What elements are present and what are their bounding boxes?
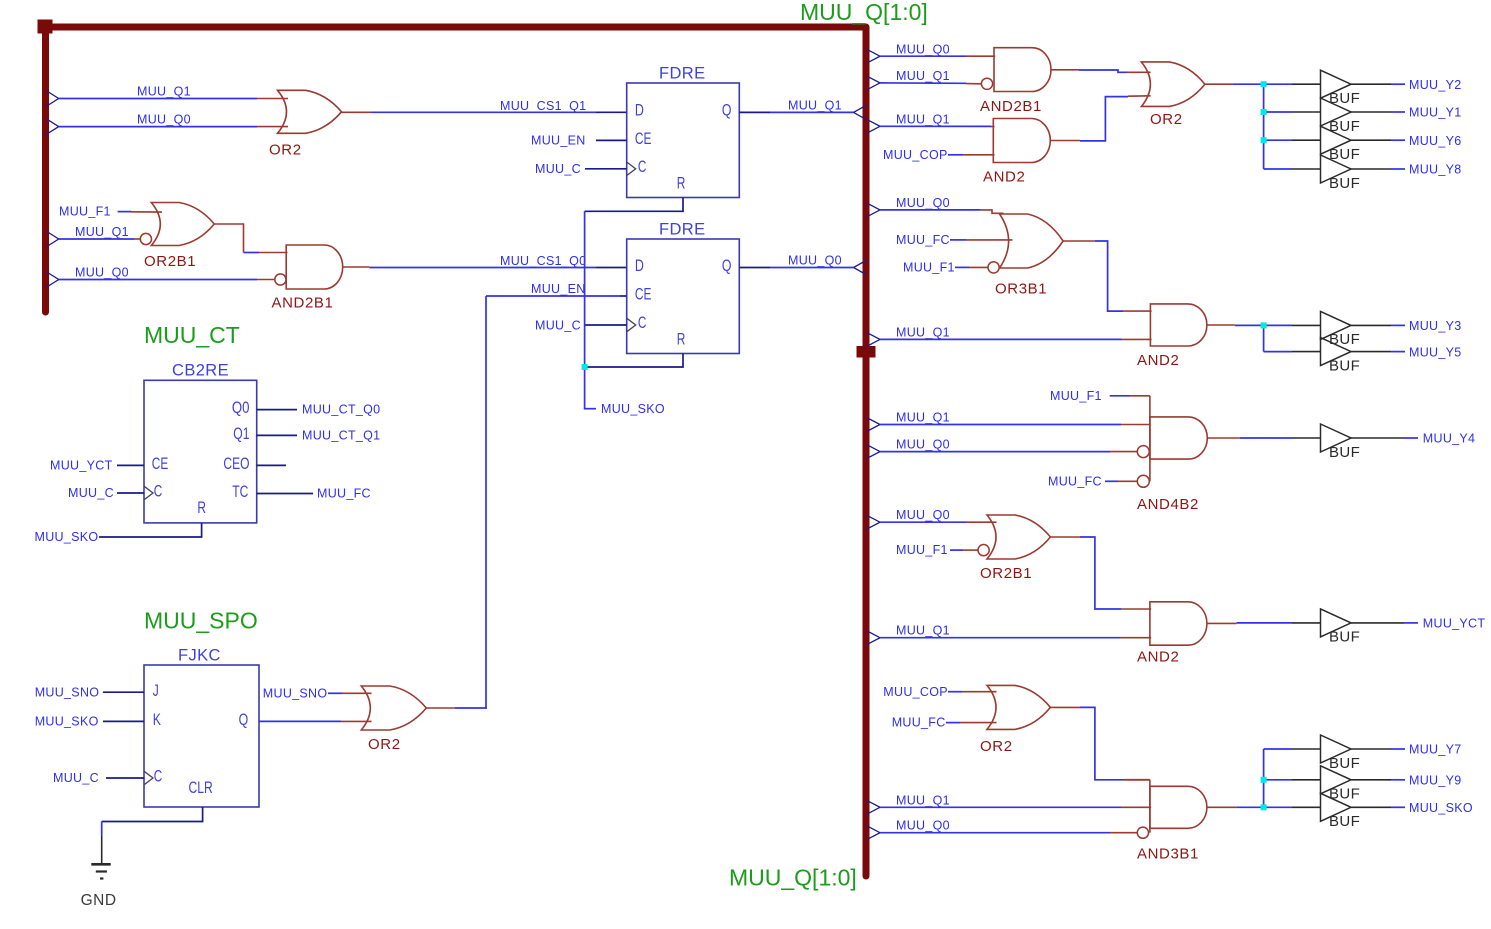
bus tap right bus out MUU_Q0 y832.7 (867, 826, 880, 840)
wire AND2 U10 output to OR2 U11 bottom input (1050, 96, 1150, 141)
svg-text:CEO: CEO (223, 454, 249, 473)
net label MUU_Y7 (1409, 743, 1462, 757)
pin label CEO CB2RE (223, 454, 249, 473)
svg-text:J: J (153, 681, 159, 700)
net label MUU_Q0 (788, 254, 842, 268)
wire MUU_C to CB2RE C (117, 492, 144, 494)
svg-text:MUU_Y9: MUU_Y9 (1409, 774, 1462, 788)
svg-text:MUU_Y2: MUU_Y2 (1409, 78, 1462, 92)
svg-text:Q0: Q0 (232, 398, 250, 417)
bus tap right bus out MUU_Q1 y807.3 (867, 800, 880, 814)
wire MUU_EN stub to FDRE U4 CE (596, 139, 627, 141)
gate label AND2 U13 (1137, 352, 1179, 369)
wire MUU_Q1 to AND2 U13 bottom input (880, 338, 1152, 340)
wire MUU_Q0 to AND2B1 U9 top input (880, 55, 995, 57)
svg-text:MUU_COP: MUU_COP (883, 148, 948, 162)
svg-text:MUU_Y4: MUU_Y4 (1423, 432, 1476, 446)
wire FDRE U5 R to junction (587, 354, 683, 368)
wire AND2B1 U9 output to OR2 U11 top input (1051, 70, 1151, 73)
pin label Q FDRE U5 (722, 256, 732, 275)
svg-text:MUU_CT_Q1: MUU_CT_Q1 (302, 429, 380, 443)
wire MUU_F1 to AND4B2 U14 input bar (1110, 395, 1150, 397)
wire OR3B1 U12 output to AND2 U13 top input (1063, 241, 1152, 311)
bus tap left bus for MUU_Q1 (46, 91, 59, 107)
svg-text:MUU_C: MUU_C (68, 486, 114, 500)
symbol name FDRE U4 (659, 64, 706, 82)
svg-text:MUU_Q1: MUU_Q1 (788, 99, 842, 113)
svg-text:MUU_Q[1:0]: MUU_Q[1:0] (800, 0, 928, 25)
svg-text:MUU_Q0: MUU_Q0 (788, 254, 842, 268)
net label MUU_Q0 (896, 438, 950, 452)
svg-text:CE: CE (152, 454, 169, 473)
net label MUU_FC (317, 487, 371, 501)
svg-text:MUU_Q1: MUU_Q1 (896, 325, 950, 339)
wire MUU_SKO to FJKC K (103, 720, 144, 722)
junction dot Y6 (1261, 137, 1267, 143)
net label MUU_Y5 (1409, 345, 1462, 359)
inverter bubble OR2B1 U15 input (978, 545, 989, 556)
net label MUU_Q1 (788, 99, 842, 113)
svg-text:MUU_EN: MUU_EN (531, 282, 586, 296)
svg-text:MUU_Y7: MUU_Y7 (1409, 743, 1462, 757)
net label MUU_EN (531, 282, 586, 296)
net label MUU_C (535, 162, 581, 176)
net label MUU_CT_Q0 (302, 403, 380, 417)
wire MUU_C to FJKC C (106, 777, 144, 779)
pin label J FJKC (153, 681, 159, 700)
wire AND2 U13 output to buffer fan (1207, 324, 1264, 326)
net label MUU_COP (883, 148, 948, 162)
net label MUU_SNO right of FJKC (263, 686, 328, 700)
and-gate AND4B2 U14 with input bar (1150, 396, 1207, 482)
wire buffer input stub MUU_Y5 (1264, 351, 1321, 353)
wire buffer fan vertical Y7-SKO (1263, 749, 1265, 807)
wire buffer input stub MUU_SKO (1264, 806, 1321, 808)
pin label R FDRE U4 (677, 173, 686, 192)
svg-text:C: C (638, 313, 647, 332)
wire MUU_SNO to FJKC J (103, 691, 144, 693)
gate label BUF MUU_Y1 (1329, 118, 1360, 135)
bus tap right bus out MUU_Q1 y82.9 (867, 76, 880, 90)
or-gate OR2 U17 (987, 685, 1050, 729)
wire buffer output MUU_Y7 (1351, 748, 1405, 750)
net label MUU_Q1 (75, 225, 129, 239)
svg-text:MUU_Y8: MUU_Y8 (1409, 163, 1462, 177)
wire MUU_FC to AND4B2 U14 inverted input (1105, 480, 1137, 482)
net label MUU_Q[1:0] top (800, 0, 928, 25)
wire MUU_COP to AND2 U10 bottom input (948, 154, 995, 156)
net label MUU_Y4 (1423, 432, 1476, 446)
wire MUU_SNO to SPO OR2 top input (328, 692, 372, 694)
bus MUU_Q[1:0] left vertical segment (42, 27, 49, 312)
wire buffer output MUU_Y5 (1351, 351, 1405, 353)
svg-text:MUU_FC: MUU_FC (1048, 474, 1102, 488)
pin label CE FDRE U4 (635, 129, 652, 148)
pin label C FDRE U4 (638, 157, 647, 176)
gate label AND2B1 U9 (980, 98, 1042, 115)
or-gate OR2 U1 (278, 90, 342, 133)
net label MUU_Y6 (1409, 134, 1462, 148)
inverter bubble AND4B2 U14 third input (1137, 446, 1149, 458)
inverter bubble OR2B1 U2 input (140, 233, 151, 244)
gate label OR2 U1 (269, 142, 302, 159)
svg-text:MUU_C: MUU_C (53, 771, 99, 785)
gate label BUF MUU_Y9 (1329, 786, 1360, 803)
svg-text:MUU_Q1: MUU_Q1 (75, 225, 129, 239)
and-gate AND2B1 U9 (994, 48, 1051, 92)
net label MUU_F1 (1050, 389, 1102, 403)
buffer BUF MUU_Y5 (1321, 338, 1352, 366)
pin label Q1 CB2RE (233, 424, 249, 443)
svg-text:MUU_Q1: MUU_Q1 (896, 112, 950, 126)
buffer BUF MUU_YCT (1321, 609, 1352, 637)
buffer BUF MUU_Y1 (1321, 98, 1352, 126)
net label MUU_EN (531, 134, 586, 148)
bus tap into right bus from MUU_Q1 (854, 105, 867, 119)
net label MUU_Q0 (137, 113, 191, 127)
flip-flop FDRE U5 body (627, 239, 740, 354)
wire MUU_Q0 to OR3B1 U12 top input (880, 210, 1004, 213)
wire MUU_Q1 to AND2B1 U9 inverted input (880, 82, 981, 85)
net label MUU_CS1_Q0 (500, 254, 586, 268)
pin label D FDRE U5 (635, 256, 644, 275)
svg-text:Q: Q (239, 710, 249, 729)
buffer BUF MUU_Y2 (1321, 70, 1352, 98)
svg-text:MUU_Q1: MUU_Q1 (896, 69, 950, 83)
wire buffer output MUU_Y4 (1351, 437, 1418, 439)
net label MUU_C (68, 486, 114, 500)
svg-text:TC: TC (232, 482, 248, 501)
net label MUU_SKO (1409, 801, 1473, 815)
net label MUU_Q0 (896, 42, 950, 56)
svg-text:MUU_SKO: MUU_SKO (1409, 801, 1473, 815)
gate label BUF MUU_Y8 (1329, 175, 1360, 192)
buffer BUF MUU_Y8 (1321, 155, 1352, 183)
svg-text:MUU_F1: MUU_F1 (903, 261, 955, 275)
svg-text:K: K (153, 710, 162, 729)
net label MUU_Q0 (896, 819, 950, 833)
svg-text:MUU_F1: MUU_F1 (1050, 389, 1102, 403)
or-gate OR2 U8 SPO (361, 686, 426, 730)
buffer BUF MUU_Y3 (1321, 311, 1352, 339)
svg-text:GND: GND (81, 892, 117, 909)
or-gate OR2 U11 (1141, 62, 1205, 106)
net label MUU_SPO section title (144, 607, 258, 633)
pin label TC CB2RE (232, 482, 248, 501)
net label MUU_YCT (50, 459, 113, 473)
wire AND3B1 U18 output to buffer fan (1207, 806, 1264, 808)
or-gate OR2B1 U2 (151, 203, 214, 246)
svg-text:MUU_Q0: MUU_Q0 (75, 266, 129, 280)
pin label C FJKC (154, 767, 163, 786)
gate label OR2B1 U15 (980, 565, 1032, 582)
net label MUU_FC (892, 716, 946, 730)
bus MUU_Q[1:0] top horizontal segment (45, 24, 866, 31)
wire MUU_SKO label stub (585, 408, 596, 410)
wire buffer input stub MUU_Y6 (1264, 139, 1321, 141)
svg-text:Q: Q (722, 101, 732, 120)
wire MUU_F1 to OR2B1 U2 top input (118, 211, 162, 214)
clock triangle CB2RE (144, 486, 153, 500)
inverter bubble AND2B1 U9 input (981, 78, 992, 89)
wire MUU_Q0 from FDRE U5 Q to bus (739, 267, 853, 269)
svg-text:MUU_SNO: MUU_SNO (35, 685, 100, 699)
buffer BUF MUU_Y4 (1321, 424, 1352, 452)
svg-text:MUU_Y5: MUU_Y5 (1409, 345, 1462, 359)
wire buffer fan vertical Y3-Y5 (1263, 325, 1265, 351)
pin label Q FJKC (239, 710, 249, 729)
wire buffer input stub MUU_Y2 (1264, 83, 1321, 85)
bus tap right bus out MUU_Q1 y126.3 (867, 119, 880, 133)
ground label GND (81, 892, 117, 909)
bus tap into right bus from MUU_Q0 (854, 261, 867, 275)
pin label Q0 CB2RE (232, 398, 250, 417)
svg-text:MUU_Q1: MUU_Q1 (896, 411, 950, 425)
svg-text:BUF: BUF (1329, 175, 1360, 192)
wire FJKC CLR to ground (102, 807, 203, 863)
net label MUU_Q[1:0] bottom (729, 864, 857, 890)
svg-text:R: R (677, 329, 686, 348)
junction dot Y3 (1261, 322, 1267, 328)
svg-text:MUU_YCT: MUU_YCT (1423, 617, 1486, 631)
net label MUU_SKO (601, 402, 665, 416)
wire SPO OR2 output to EN vertical (426, 707, 487, 709)
svg-text:MUU_F1: MUU_F1 (896, 543, 948, 557)
wire FDRE U4 R to vertical net (585, 198, 683, 212)
net label MUU_FC (896, 233, 950, 247)
wire buffer fan vertical Y2-Y8 (1263, 84, 1265, 169)
counter CB2RE U6 body (144, 380, 257, 523)
wire MUU_Q1 from FDRE U4 Q to bus (739, 111, 853, 113)
net label MUU_Q1 (896, 624, 950, 638)
symbol name FDRE U5 (659, 220, 706, 238)
svg-text:MUU_Q1: MUU_Q1 (137, 85, 191, 99)
symbol name FJKC U7 (178, 647, 221, 665)
svg-text:AND2B1: AND2B1 (272, 294, 334, 311)
svg-text:MUU_CT: MUU_CT (144, 322, 240, 348)
svg-text:MUU_Y1: MUU_Y1 (1409, 106, 1462, 120)
net label MUU_Y2 (1409, 78, 1462, 92)
wire MUU_CS1_Q0 from AND2B1 U3 to FDRE U5 D (343, 266, 627, 269)
buffer BUF MUU_SKO (1321, 793, 1352, 821)
pin label CE FDRE U5 (635, 285, 652, 304)
gate label AND3B1 U18 (1137, 845, 1199, 862)
svg-text:MUU_F1: MUU_F1 (59, 205, 111, 219)
wire MUU_Q1 to OR2B1 U2 inverted input (59, 238, 141, 240)
wire buffer input stub MUU_Y8 (1264, 168, 1321, 170)
flip-flop FJKC U7 body (144, 665, 259, 807)
wire buffer input stub MUU_Y3 (1264, 324, 1321, 326)
gate label AND2B1 U3 (272, 294, 334, 311)
clock triangle FDRE U5 (627, 318, 636, 332)
wire buffer output MUU_Y2 (1351, 83, 1405, 85)
svg-text:MUU_EN: MUU_EN (531, 134, 586, 148)
gate label OR2 U11 (1150, 111, 1183, 128)
net label MUU_Q1 (896, 69, 950, 83)
and-gate AND2 U13 (1150, 304, 1207, 346)
net label MUU_F1 (59, 205, 111, 219)
wire R-net vertical MUU_SKO (584, 211, 586, 409)
svg-text:BUF: BUF (1329, 755, 1360, 772)
svg-text:MUU_CS1_Q0: MUU_CS1_Q0 (500, 254, 586, 268)
wire CB2RE Q1 out (257, 434, 297, 436)
pin label D FDRE U4 (635, 101, 644, 120)
wire MUU_FC to OR3B1 U12 middle input (950, 239, 1013, 241)
wire buffer output MUU_YCT (1351, 622, 1418, 624)
gate label AND4B2 U14 (1137, 496, 1199, 513)
net label MUU_Q1 (896, 325, 950, 339)
svg-text:C: C (638, 157, 647, 176)
svg-text:R: R (197, 498, 206, 517)
wire buffer input stub MUU_Y7 (1264, 748, 1321, 750)
wire buffer output MUU_Y3 (1351, 324, 1405, 326)
inverter bubble AND3B1 U18 input (1137, 827, 1148, 838)
svg-text:OR2: OR2 (368, 736, 401, 753)
wire MUU_C stub to FDRE U4 C (585, 168, 627, 170)
svg-text:MUU_C: MUU_C (535, 162, 581, 176)
wire OR2 U11 output to buffer fan (1205, 83, 1264, 85)
svg-text:AND4B2: AND4B2 (1137, 496, 1199, 513)
svg-text:MUU_Y3: MUU_Y3 (1409, 319, 1462, 333)
svg-text:AND2: AND2 (1137, 649, 1179, 666)
net label MUU_SKO (35, 530, 99, 544)
svg-text:BUF: BUF (1329, 813, 1360, 830)
svg-text:MUU_Q0: MUU_Q0 (896, 196, 950, 210)
gate label AND2 U10 (983, 169, 1025, 186)
wire buffer output MUU_Y1 (1351, 111, 1405, 113)
bus tap right bus out MUU_Q0 y451.6 (867, 445, 880, 459)
clock triangle FJKC (144, 771, 153, 785)
bus junction marker on right bus (857, 346, 876, 358)
svg-text:AND3B1: AND3B1 (1137, 845, 1199, 862)
and-gate AND2 U16 (1150, 602, 1207, 645)
gate label BUF MUU_SKO (1329, 813, 1360, 830)
bus tap right bus out MUU_Q0 y56.2 (867, 49, 880, 63)
svg-text:BUF: BUF (1329, 444, 1360, 461)
net label MUU_Q1 (896, 411, 950, 425)
clock triangle FDRE U4 (627, 162, 636, 176)
wire MUU_YCT to CB2RE CE (117, 464, 144, 466)
wire buffer output MUU_Y6 (1351, 139, 1405, 141)
gate label BUF MUU_Y7 (1329, 755, 1360, 772)
svg-text:MUU_Y6: MUU_Y6 (1409, 134, 1462, 148)
junction dot SKO (1261, 804, 1267, 810)
wire CB2RE R to MUU_SKO (99, 523, 202, 537)
wire buffer output MUU_Y8 (1351, 168, 1405, 170)
svg-text:MUU_SNO: MUU_SNO (263, 686, 328, 700)
net label MUU_F1 (896, 543, 948, 557)
bus tap left bus for MUU_Q1 (46, 231, 59, 247)
bus tap right bus out MUU_Q0 y522.2 (867, 515, 880, 529)
wire MUU_C stub to FDRE U5 C (585, 324, 627, 326)
svg-text:MUU_Q0: MUU_Q0 (137, 113, 191, 127)
svg-text:MUU_Q0: MUU_Q0 (896, 508, 950, 522)
svg-text:OR2: OR2 (1150, 111, 1183, 128)
net label MUU_Q0 (896, 196, 950, 210)
wire MUU_EN from SPO OR2 to FDRE U5 CE (486, 295, 627, 297)
svg-text:MUU_Q0: MUU_Q0 (896, 438, 950, 452)
svg-text:MUU_SKO: MUU_SKO (601, 402, 665, 416)
svg-text:FJKC: FJKC (178, 647, 221, 665)
net label MUU_C (53, 771, 99, 785)
bus tap right bus out MUU_Q1 y339.4 (867, 332, 880, 346)
net label MUU_Q1 (896, 112, 950, 126)
svg-text:FDRE: FDRE (659, 220, 706, 238)
pin label R CB2RE (197, 498, 206, 517)
wire MUU_COP to OR2 U17 top input (948, 691, 997, 693)
wire MUU_Q1 to AND3B1 U18 middle input (880, 806, 1151, 808)
inverter bubble AND4B2 U14 fourth input (1137, 475, 1149, 487)
net label MUU_C (535, 318, 581, 332)
gate label BUF MUU_Y6 (1329, 146, 1360, 163)
svg-text:CE: CE (635, 285, 652, 304)
junction dot R-net (582, 364, 588, 370)
junction dot Y1 (1261, 109, 1267, 115)
bus corner junction marker top-left (38, 20, 53, 34)
wire buffer input stub MUU_Y1 (1264, 111, 1321, 113)
net label MUU_Y9 (1409, 774, 1462, 788)
svg-text:AND2B1: AND2B1 (980, 98, 1042, 115)
wire MUU_Q0 to OR2 U1 bottom input (59, 126, 288, 128)
svg-text:R: R (677, 173, 686, 192)
svg-text:AND2: AND2 (983, 169, 1025, 186)
svg-text:MUU_Q0: MUU_Q0 (896, 42, 950, 56)
or-gate OR2B1 U15 (987, 515, 1050, 559)
svg-text:CLR: CLR (189, 778, 213, 797)
svg-text:C: C (154, 482, 163, 501)
svg-text:MUU_FC: MUU_FC (896, 233, 950, 247)
svg-text:MUU_Q[1:0]: MUU_Q[1:0] (729, 864, 857, 890)
net label MUU_Y1 (1409, 106, 1462, 120)
wire CB2RE TC out MUU_FC (257, 493, 313, 495)
junction dot Y9 (1261, 777, 1267, 783)
svg-text:OR3B1: OR3B1 (995, 280, 1047, 297)
net label MUU_Y3 (1409, 319, 1462, 333)
svg-text:Q: Q (722, 256, 732, 275)
svg-text:BUF: BUF (1329, 629, 1360, 646)
wire MUU_Q1 to AND2 U10 top input (880, 125, 995, 127)
svg-text:C: C (154, 767, 163, 786)
svg-text:MUU_YCT: MUU_YCT (50, 459, 113, 473)
net label MUU_CT_Q1 (302, 429, 380, 443)
or-gate OR3B1 U12 (1000, 214, 1064, 268)
net label MUU_Q1 (896, 793, 950, 807)
net label MUU_YCT (1423, 617, 1486, 631)
pin label CLR FJKC (189, 778, 213, 797)
inverter bubble AND2B1 U3 input (275, 274, 286, 285)
gate label BUF MUU_Y5 (1329, 357, 1360, 374)
junction dot Y2 (1261, 81, 1267, 87)
svg-text:MUU_COP: MUU_COP (883, 685, 948, 699)
gate label BUF MUU_Y3 (1329, 331, 1360, 348)
net label MUU_COP (883, 685, 948, 699)
buffer BUF MUU_Y7 (1321, 735, 1352, 763)
svg-text:BUF: BUF (1329, 357, 1360, 374)
and-gate AND2 U10 (993, 119, 1050, 163)
gate label BUF MUU_YCT (1329, 629, 1360, 646)
wire buffer output MUU_Y9 (1351, 779, 1405, 781)
wire buffer output MUU_SKO (1351, 806, 1405, 808)
net label MUU_Q0 (75, 266, 129, 280)
svg-text:FDRE: FDRE (659, 64, 706, 82)
net label MUU_CT section title (144, 322, 240, 348)
svg-text:OR2: OR2 (269, 142, 302, 159)
svg-text:CB2RE: CB2RE (172, 362, 229, 380)
svg-text:MUU_SPO: MUU_SPO (144, 607, 258, 633)
svg-text:MUU_SKO: MUU_SKO (35, 530, 99, 544)
ground symbol GND (91, 864, 110, 878)
svg-text:MUU_FC: MUU_FC (892, 716, 946, 730)
